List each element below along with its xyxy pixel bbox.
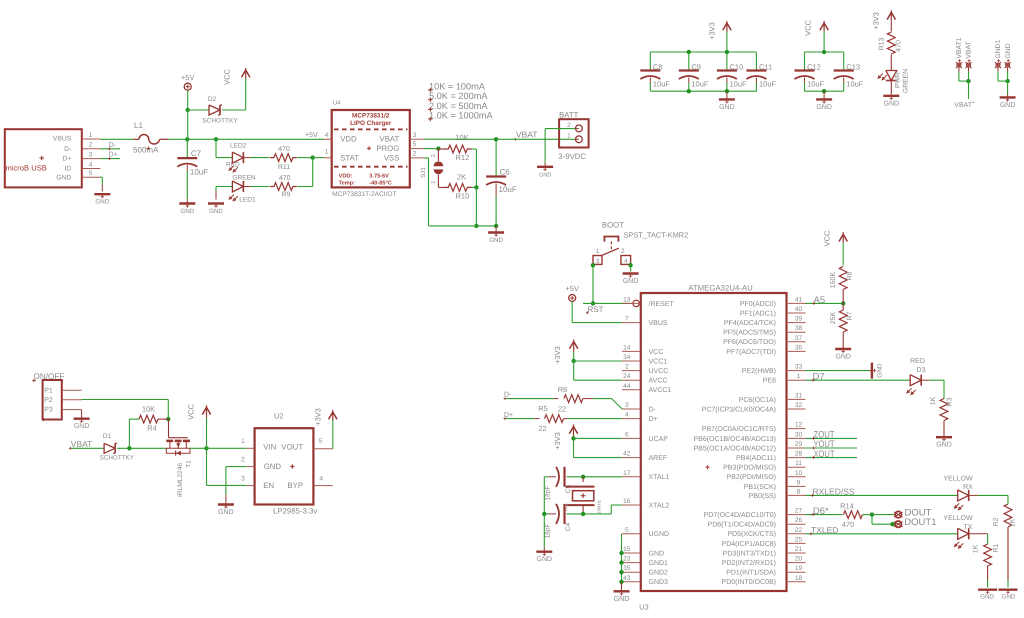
- svg-text:42: 42: [623, 451, 631, 458]
- svg-text:36: 36: [795, 344, 803, 351]
- svg-text:22: 22: [538, 424, 546, 433]
- svg-text:20: 20: [795, 556, 803, 563]
- svg-text:D3: D3: [917, 367, 926, 374]
- svg-text:+3V3: +3V3: [314, 408, 323, 426]
- svg-text:4: 4: [624, 258, 628, 265]
- svg-text:11: 11: [795, 460, 802, 467]
- svg-text:D-: D-: [64, 146, 71, 153]
- svg-text:VBUS: VBUS: [53, 136, 72, 143]
- svg-text:PD1(INT1/SDA): PD1(INT1/SDA): [726, 569, 776, 577]
- svg-text:+3V3: +3V3: [708, 22, 717, 40]
- svg-text:39: 39: [795, 316, 803, 323]
- svg-text:2: 2: [430, 154, 437, 157]
- svg-text:3-9VDC: 3-9VDC: [558, 152, 586, 161]
- svg-text:GND: GND: [74, 423, 90, 430]
- svg-text:3: 3: [625, 402, 629, 409]
- svg-text:VIN: VIN: [263, 443, 276, 452]
- svg-text:2K: 2K: [457, 173, 466, 182]
- svg-text:+5V: +5V: [305, 132, 318, 139]
- svg-text:3.75-6V: 3.75-6V: [369, 173, 389, 179]
- svg-text:D7: D7: [813, 371, 825, 382]
- svg-text:RXLED/SS: RXLED/SS: [813, 487, 855, 497]
- svg-text:1: 1: [797, 373, 801, 380]
- svg-text:18: 18: [795, 575, 803, 582]
- svg-text:PB1(SCK): PB1(SCK): [744, 483, 776, 491]
- svg-text:GND: GND: [876, 363, 883, 378]
- svg-text:AVCC: AVCC: [649, 378, 668, 385]
- svg-text:A5: A5: [814, 295, 826, 306]
- svg-text:1: 1: [431, 181, 437, 184]
- svg-text:15: 15: [623, 546, 631, 553]
- svg-text:PD5(XCK/CTS): PD5(XCK/CTS): [727, 530, 776, 538]
- svg-text:YELLOW: YELLOW: [943, 475, 973, 482]
- svg-text:R13: R13: [879, 37, 886, 50]
- svg-text:MCP73831T-2ACI/OT: MCP73831T-2ACI/OT: [332, 191, 397, 198]
- svg-text:6: 6: [625, 431, 629, 438]
- svg-text:R14: R14: [840, 501, 854, 510]
- svg-text:GND: GND: [719, 104, 735, 111]
- svg-text:D1: D1: [103, 433, 112, 440]
- svg-text:43: 43: [623, 575, 631, 582]
- svg-text:PB7(OC0A/OC1C/RTS): PB7(OC0A/OC1C/RTS): [702, 425, 776, 433]
- svg-text:ID: ID: [64, 166, 71, 173]
- svg-text:GND: GND: [1005, 43, 1012, 58]
- svg-text:U2: U2: [274, 411, 284, 420]
- svg-text:10uF: 10uF: [653, 80, 671, 89]
- svg-text:31: 31: [795, 392, 803, 399]
- svg-text:PB3(PDO/MISO): PB3(PDO/MISO): [723, 464, 776, 472]
- svg-text:10uF: 10uF: [846, 80, 864, 89]
- svg-text:2: 2: [621, 248, 625, 255]
- svg-text:GND: GND: [1002, 594, 1016, 601]
- svg-text:28: 28: [795, 451, 803, 458]
- svg-text:C11: C11: [759, 62, 772, 71]
- svg-text:18pF: 18pF: [545, 523, 552, 538]
- svg-text:VSS: VSS: [384, 153, 400, 162]
- svg-text:23: 23: [623, 556, 631, 563]
- svg-text:D+: D+: [109, 152, 118, 159]
- svg-text:470: 470: [842, 520, 855, 529]
- svg-text:10K: 10K: [142, 405, 155, 414]
- svg-text:GND1: GND1: [995, 39, 1002, 58]
- svg-text:VOUT: VOUT: [281, 443, 303, 452]
- svg-text:GND2: GND2: [649, 570, 669, 577]
- svg-text:1.0K = 1000mA: 1.0K = 1000mA: [429, 111, 493, 121]
- svg-text:+5V: +5V: [181, 73, 195, 82]
- svg-text:41: 41: [795, 296, 803, 303]
- svg-text:C9: C9: [691, 62, 701, 71]
- svg-text:VBAT1: VBAT1: [956, 37, 963, 58]
- svg-text:44: 44: [623, 383, 631, 390]
- svg-text:GND: GND: [539, 172, 551, 178]
- svg-text:STAT: STAT: [340, 153, 359, 162]
- svg-text:5.0K = 200mA: 5.0K = 200mA: [429, 91, 488, 101]
- svg-text:4: 4: [319, 476, 323, 483]
- svg-text:+5V: +5V: [565, 284, 579, 293]
- svg-text:10uF: 10uF: [759, 80, 777, 89]
- svg-text:D6*: D6*: [813, 506, 829, 517]
- svg-text:PE2(HWB): PE2(HWB): [742, 367, 776, 375]
- svg-text:L1: L1: [134, 121, 143, 130]
- svg-text:+: +: [972, 100, 975, 106]
- svg-text:33: 33: [795, 364, 803, 371]
- svg-text:10uF: 10uF: [190, 168, 208, 177]
- svg-text:VBAT: VBAT: [954, 102, 972, 109]
- svg-text:GREEN: GREEN: [903, 69, 910, 93]
- svg-text:1K: 1K: [973, 544, 980, 553]
- svg-text:VDD: VDD: [340, 134, 357, 143]
- svg-text:GND: GND: [835, 354, 851, 361]
- svg-text:IRLML2246: IRLML2246: [177, 463, 184, 497]
- svg-text:1: 1: [89, 132, 93, 139]
- svg-text:C10: C10: [730, 62, 744, 71]
- svg-text:GND: GND: [649, 550, 665, 557]
- svg-text:30: 30: [795, 431, 803, 438]
- svg-text:3: 3: [89, 151, 93, 158]
- svg-text:RST: RST: [588, 305, 604, 314]
- svg-text:PF6(ADC6/TDO): PF6(ADC6/TDO): [723, 338, 776, 346]
- svg-text:/RESET: /RESET: [649, 300, 675, 308]
- svg-text:2: 2: [413, 151, 417, 158]
- svg-text:+3V3: +3V3: [872, 12, 881, 30]
- svg-text:1: 1: [567, 133, 571, 140]
- svg-text:13: 13: [623, 296, 631, 303]
- svg-text:PD2(INT2/RXD1): PD2(INT2/RXD1): [722, 559, 776, 567]
- svg-text:T1: T1: [186, 460, 193, 468]
- svg-text:10uF: 10uF: [499, 185, 517, 194]
- svg-text:PD3(INT3/TXD1): PD3(INT3/TXD1): [723, 549, 776, 557]
- svg-text:PWR: PWR: [895, 72, 902, 88]
- svg-text:R10: R10: [456, 192, 470, 201]
- svg-text:PB2(PDI/MISO): PB2(PDI/MISO): [727, 473, 776, 481]
- svg-text:D+: D+: [649, 416, 658, 423]
- svg-text:Temp:: Temp:: [339, 180, 356, 186]
- svg-text:4: 4: [625, 412, 629, 419]
- svg-text:2: 2: [89, 142, 93, 149]
- svg-text:R9: R9: [282, 191, 291, 198]
- svg-text:5: 5: [319, 438, 323, 445]
- svg-text:8: 8: [797, 488, 801, 495]
- svg-text:R4: R4: [147, 423, 157, 432]
- svg-text:GND: GND: [816, 104, 832, 111]
- svg-text:18pF: 18pF: [545, 485, 552, 500]
- svg-text:AVCC1: AVCC1: [649, 387, 672, 394]
- svg-text:10K: 10K: [455, 133, 468, 142]
- svg-text:GND: GND: [980, 594, 994, 601]
- svg-text:VBAT: VBAT: [380, 134, 400, 143]
- svg-text:+3V3: +3V3: [553, 432, 562, 450]
- svg-text:PF5(ADC5/TMS): PF5(ADC5/TMS): [723, 329, 776, 337]
- svg-text:C7: C7: [191, 149, 202, 158]
- svg-text:4: 4: [325, 132, 329, 139]
- svg-text:AREF: AREF: [649, 455, 668, 462]
- svg-text:VCC: VCC: [187, 404, 196, 420]
- svg-text:37: 37: [795, 335, 803, 342]
- svg-text:500mA: 500mA: [133, 146, 159, 155]
- svg-text:470: 470: [896, 40, 903, 52]
- svg-text:GND: GND: [264, 462, 282, 471]
- svg-text:25K: 25K: [830, 311, 837, 324]
- svg-text:PD4(ICP1/ADC8): PD4(ICP1/ADC8): [722, 540, 776, 548]
- svg-text:10K = 100mA: 10K = 100mA: [429, 82, 486, 92]
- svg-text:C8: C8: [653, 62, 663, 71]
- svg-text:U3: U3: [639, 603, 649, 612]
- svg-text:22: 22: [558, 405, 566, 414]
- svg-text:PB5(OC1A/OC4B/ADC12): PB5(OC1A/OC4B/ADC12): [694, 444, 776, 452]
- svg-text:GREEN: GREEN: [232, 175, 255, 182]
- svg-text:VDD:: VDD:: [339, 173, 353, 179]
- svg-text:2: 2: [241, 457, 245, 464]
- svg-text:10: 10: [795, 470, 803, 477]
- svg-text:XTAL2: XTAL2: [649, 502, 670, 509]
- svg-text:+3V3: +3V3: [553, 346, 562, 364]
- svg-text:10uF: 10uF: [691, 80, 709, 89]
- svg-text:R6: R6: [558, 385, 568, 394]
- svg-text:GND: GND: [209, 208, 223, 215]
- svg-text:34: 34: [623, 354, 631, 361]
- svg-text:GND: GND: [56, 174, 71, 181]
- svg-text:17: 17: [623, 470, 631, 477]
- svg-text:12: 12: [795, 422, 803, 429]
- svg-text:SCHOTTKY: SCHOTTKY: [100, 455, 135, 462]
- svg-text:470: 470: [279, 175, 291, 182]
- svg-text:GND: GND: [95, 199, 109, 206]
- svg-text:GND: GND: [489, 237, 503, 244]
- svg-text:3: 3: [413, 132, 417, 139]
- svg-text:1: 1: [596, 248, 600, 255]
- svg-text:GND: GND: [614, 594, 630, 603]
- svg-text:14: 14: [623, 344, 631, 351]
- svg-text:R8: R8: [847, 271, 854, 280]
- svg-text:GND: GND: [936, 442, 952, 449]
- svg-text:4: 4: [89, 161, 93, 168]
- svg-text:PE6: PE6: [763, 378, 776, 385]
- svg-text:26: 26: [795, 517, 803, 524]
- svg-text:2.0K = 500mA: 2.0K = 500mA: [429, 101, 488, 111]
- svg-text:microB USB: microB USB: [6, 164, 47, 173]
- svg-text:10uF: 10uF: [730, 80, 748, 89]
- svg-text:PF4(ADC4/TCK): PF4(ADC4/TCK): [724, 319, 776, 327]
- svg-text:P2: P2: [44, 397, 53, 404]
- svg-text:C12: C12: [807, 62, 821, 71]
- svg-text:1K: 1K: [930, 396, 937, 405]
- svg-text:16MHz: 16MHz: [597, 500, 602, 514]
- svg-text:GND3: GND3: [649, 579, 669, 586]
- svg-text:VCC: VCC: [649, 349, 664, 356]
- svg-text:25: 25: [795, 536, 803, 543]
- svg-text:XTAL1: XTAL1: [649, 474, 670, 481]
- svg-text:D-: D-: [649, 406, 657, 413]
- svg-text:R12: R12: [456, 153, 470, 162]
- svg-text:LIPO Charger: LIPO Charger: [350, 120, 392, 127]
- svg-text:21: 21: [795, 546, 803, 553]
- svg-text:C4: C4: [565, 522, 572, 531]
- svg-text:RED: RED: [910, 358, 925, 365]
- svg-text:D2: D2: [208, 96, 217, 103]
- svg-text:VBUS: VBUS: [649, 320, 668, 327]
- svg-text:GND: GND: [623, 278, 639, 285]
- svg-text:GND: GND: [218, 509, 234, 516]
- svg-text:35: 35: [623, 565, 631, 572]
- svg-text:PROG: PROG: [376, 144, 399, 153]
- svg-text:YELLOW: YELLOW: [943, 515, 973, 522]
- svg-text:PF0(ADC0): PF0(ADC0): [740, 300, 776, 308]
- svg-text:PF1(ADC1): PF1(ADC1): [740, 309, 776, 317]
- svg-text:1K: 1K: [1010, 518, 1017, 527]
- svg-text:38: 38: [795, 325, 803, 332]
- svg-text:R11: R11: [278, 164, 290, 171]
- svg-text:MCP73831/2: MCP73831/2: [352, 113, 390, 120]
- svg-text:UGND: UGND: [649, 531, 670, 538]
- svg-text:VCC: VCC: [823, 230, 832, 246]
- svg-text:1: 1: [241, 438, 245, 445]
- svg-text:R7: R7: [847, 311, 854, 320]
- svg-text:C6: C6: [500, 168, 511, 177]
- svg-text:16: 16: [623, 498, 631, 505]
- svg-text:3: 3: [241, 476, 245, 483]
- svg-text:GND: GND: [884, 100, 900, 107]
- svg-text:EN: EN: [263, 481, 274, 490]
- svg-text:TXLED: TXLED: [811, 525, 838, 535]
- svg-text:PC6(OC1A): PC6(OC1A): [739, 396, 776, 404]
- svg-text:40: 40: [795, 306, 803, 313]
- svg-text:SJ1: SJ1: [420, 167, 427, 178]
- svg-text:5: 5: [625, 527, 629, 534]
- svg-text:LED1: LED1: [239, 197, 256, 204]
- svg-text:UVCC: UVCC: [649, 368, 669, 375]
- svg-text:VBAT: VBAT: [71, 439, 93, 449]
- svg-text:R1: R1: [993, 543, 1000, 552]
- svg-text:R3: R3: [947, 397, 954, 406]
- svg-text:GND1: GND1: [649, 560, 669, 567]
- svg-text:9: 9: [797, 479, 801, 486]
- svg-text:29: 29: [795, 441, 803, 448]
- svg-text:P1: P1: [44, 387, 53, 394]
- svg-text:VCC1: VCC1: [649, 358, 668, 365]
- svg-text:D+: D+: [62, 155, 71, 162]
- svg-text:2: 2: [625, 364, 629, 371]
- svg-text:3: 3: [596, 258, 600, 265]
- svg-text:LED2: LED2: [230, 143, 247, 150]
- svg-text:DOUT1: DOUT1: [904, 517, 936, 528]
- svg-text:LP2985-3.3v: LP2985-3.3v: [273, 506, 317, 515]
- svg-text:PD7(OC4D/ADC10/T0): PD7(OC4D/ADC10/T0): [704, 511, 776, 519]
- svg-text:GND: GND: [180, 208, 194, 215]
- svg-text:PF7(ADC7(TDI): PF7(ADC7(TDI): [726, 348, 776, 356]
- svg-text:PB6(OC1B/OC4B/ADC13): PB6(OC1B/OC4B/ADC13): [694, 435, 776, 443]
- svg-text:R5: R5: [538, 404, 548, 413]
- svg-text:BOOT: BOOT: [602, 220, 624, 229]
- svg-text:PD6(T1/OC4D/ADC9): PD6(T1/OC4D/ADC9): [708, 521, 776, 529]
- svg-text:PC7(ICP3/CLK0/OC4A): PC7(ICP3/CLK0/OC4A): [702, 405, 776, 413]
- svg-text:BYP: BYP: [287, 481, 303, 490]
- svg-text:PB0(SS): PB0(SS): [749, 492, 776, 500]
- svg-text:-40-85°C: -40-85°C: [369, 180, 391, 186]
- svg-text:P3: P3: [44, 407, 53, 414]
- svg-text:UCAP: UCAP: [649, 436, 669, 443]
- svg-text:VCC: VCC: [223, 69, 232, 85]
- svg-text:32: 32: [795, 402, 803, 409]
- svg-text:10uF: 10uF: [807, 80, 825, 89]
- svg-text:GND: GND: [1000, 102, 1016, 109]
- svg-text:VBAT: VBAT: [966, 41, 973, 58]
- svg-text:PD0(INT0/OC0B): PD0(INT0/OC0B): [722, 578, 776, 586]
- svg-text:R2: R2: [993, 517, 1000, 526]
- svg-text:SPST_TACT-KMR2: SPST_TACT-KMR2: [624, 231, 689, 240]
- svg-text:470: 470: [278, 146, 290, 153]
- svg-text:7: 7: [625, 316, 629, 323]
- svg-text:PB4(ADC11): PB4(ADC11): [736, 454, 776, 462]
- svg-text:ATMEGA32U4-AU: ATMEGA32U4-AU: [688, 284, 753, 293]
- svg-text:U4: U4: [333, 99, 341, 106]
- svg-text:GND: GND: [537, 556, 553, 563]
- svg-text:VCC: VCC: [804, 20, 813, 36]
- svg-text:24: 24: [623, 373, 631, 380]
- svg-text:150K: 150K: [830, 272, 837, 289]
- svg-text:27: 27: [795, 508, 803, 515]
- svg-text:C13: C13: [846, 62, 860, 71]
- svg-text:SCHOTTKY: SCHOTTKY: [202, 118, 238, 125]
- svg-text:5: 5: [413, 141, 417, 148]
- svg-text:VBAT: VBAT: [516, 130, 538, 140]
- svg-text:22: 22: [795, 527, 803, 534]
- svg-text:1: 1: [325, 149, 329, 156]
- svg-text:XOUT: XOUT: [814, 449, 835, 460]
- svg-text:5: 5: [89, 170, 93, 177]
- svg-text:19: 19: [795, 565, 803, 572]
